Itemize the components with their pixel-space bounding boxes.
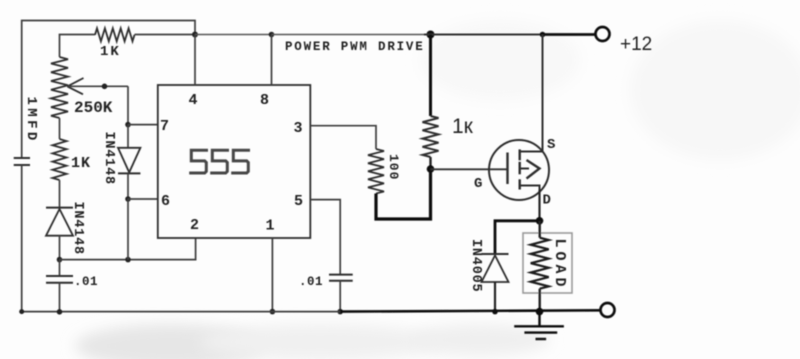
svg-text:6: 6 [161,193,170,210]
node: left cap bottom junction [57,309,63,315]
wire: top rail from pin4 junction to pin8 junction [195,34,272,36]
wire: 1K left bottom to diode [59,180,61,208]
node: drain junction (thick) [536,217,544,225]
wire: thick PWM vertical from top rail [429,35,432,117]
potentiometer 250K [51,57,113,118]
svg-text:G: G [474,176,482,192]
svg-text:3: 3 [294,120,303,137]
wire: pin 3 out to 100 ohm resistor [310,126,376,149]
wire: bottom rail thick section to output terminal [340,310,600,311]
node: lower-left junction [57,257,63,263]
resistor LOAD with box [523,221,572,312]
wire: bottom rail thin section [22,311,341,313]
wire: drain down to drain junction [538,190,540,221]
resistor 1k (drive) [423,115,474,157]
node: wiper dot [102,84,108,90]
wire: source up to top rail [542,35,544,147]
svg-text:5: 5 [294,193,303,210]
resistor 1K (left) [53,139,92,180]
node: pin1 bottom rail junction [270,309,276,315]
terminal +12 [596,27,653,55]
diode IN4148 (second, cathode down) [101,125,140,199]
node: diode column junction on y=260 run [125,257,131,263]
wire: horizontal run y=260 from lower-left node to pin2 [60,238,196,260]
pin 8 [260,35,272,110]
op-amp/timer IC 555 body [158,85,310,238]
node: pin4/top rail junction [192,32,198,38]
diode IN4148 (left, cathode up) [46,202,85,255]
wire: pot bottom to 1K left [59,118,61,139]
wire: diode column down to y=260 run [127,199,129,260]
wire: pot wiper horizontal [68,85,128,87]
resistor 1K (top) [95,28,135,60]
transistor Q1 MOSFET [474,137,555,209]
terminal output [601,303,615,317]
pin 4 [189,35,198,110]
diode IN4005 (cathode up) [468,239,509,312]
node: pin6 junction [125,196,131,202]
wire: 1k bottom to gate junction [429,157,431,169]
svg-text:IN4148: IN4148 [101,132,116,185]
capacitor 1MFD (left rail) [14,97,39,166]
svg-text:D: D [543,193,551,209]
svg-text:250K: 250K [74,99,113,117]
ground [514,312,564,339]
svg-text:1K: 1K [71,155,91,172]
wire: pin 1 down to bottom rail [271,238,273,312]
node: ground junction (thick) [536,308,544,316]
node: right cap bottom rail junction [337,309,343,315]
node: gate junction (thick) [427,165,435,173]
svg-text:IN4148: IN4148 [70,202,85,255]
wire: drain junction left to IN4005 (thick) [495,221,540,254]
wire: gate junction to MOSFET gate [431,168,508,170]
svg-text:1MFD: 1MFD [23,97,39,144]
svg-text:S: S [547,137,555,153]
wire: top rail pin8 junction to PWM junction [272,34,431,36]
svg-text:+12: +12 [620,34,652,55]
resistor 100 [368,149,401,194]
svg-text:POWER PWM DRIVE: POWER PWM DRIVE [285,40,425,54]
svg-text:4: 4 [189,92,198,109]
svg-text:1к: 1к [452,115,474,138]
svg-text:LOAD: LOAD [551,239,568,291]
svg-text:IN4005: IN4005 [468,239,483,292]
wire: top rail to +12 terminal (thick) [543,33,597,36]
node: source wire junction [540,32,546,38]
wire: pin 5 out to .01 cap [310,200,340,275]
node: PWM drive junction (thick) [427,31,435,39]
node: IN4005 bottom rail junction [492,309,498,315]
svg-text:.01: .01 [299,275,323,289]
wire: 1K top resistor left lead down to pot top [60,35,96,58]
wire: pin 7 lead into 555 [128,124,158,126]
svg-text:2: 2 [190,217,199,234]
capacitor .01 (left) [46,260,98,312]
svg-text:8: 8 [260,92,269,109]
svg-text:100: 100 [386,154,401,180]
node: pin8 junction [269,32,275,38]
wire: wiper down to pin7 junction [127,86,129,124]
wire: pin 6 lead into 555 [128,198,158,200]
svg-text:1: 1 [266,218,275,235]
wire: diode anode down to lower-left node [59,236,61,260]
wire: top-left outer loop from left rail to pin4 junction [22,21,195,158]
node: bottom-left corner [19,309,24,314]
node: pin7 junction [125,122,131,128]
wire: left rail below 1MFD to bottom rail [21,165,23,312]
wire: thick loop from 100 bottom to gate junction [376,169,431,219]
wire: top rail PWM junction to source-wire junction [424,34,543,36]
wire: 1K top right lead to pin4 junction [135,34,196,36]
svg-text:1K: 1K [100,44,121,60]
svg-text:.01: .01 [74,275,98,289]
svg-text:7: 7 [160,118,169,135]
capacitor .01 (right) [299,275,353,312]
